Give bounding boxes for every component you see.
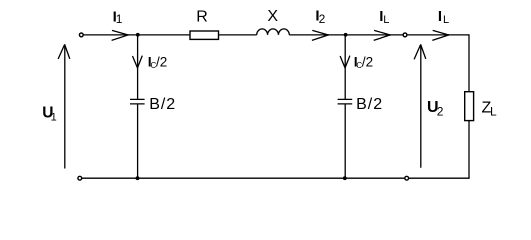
- svg-text:L: L: [443, 14, 449, 26]
- arrow U2: [414, 44, 426, 167]
- inductor X: [257, 29, 290, 35]
- svg-text:L: L: [383, 14, 389, 26]
- capacitor B/2 right: [338, 99, 353, 104]
- arrow Ic/2 right: [340, 56, 350, 69]
- svg-text:L: L: [490, 104, 497, 118]
- arrow U1: [58, 44, 70, 168]
- wire bottom right: [409, 177, 470, 179]
- arrow IL second: [432, 30, 449, 40]
- terminal input bottom: [78, 176, 82, 180]
- capacitor B/2 left: [130, 99, 145, 104]
- wire top-left: [84, 34, 190, 36]
- wire load right vertical lower: [468, 121, 470, 179]
- svg-text:X: X: [267, 8, 278, 25]
- terminal output top: [403, 33, 407, 37]
- svg-text:2: 2: [437, 104, 444, 118]
- wire bottom main: [82, 177, 405, 179]
- arrow I1: [112, 30, 129, 40]
- wire shunt1 upper: [137, 35, 139, 99]
- node junction top-right: [344, 33, 348, 37]
- svg-text:/2: /2: [156, 55, 167, 70]
- svg-text:B/2: B/2: [356, 96, 383, 113]
- node junction bottom-left: [136, 176, 140, 180]
- wire shunt2 upper: [344, 35, 346, 99]
- svg-text:B/2: B/2: [149, 96, 176, 113]
- load ZL: [465, 92, 474, 121]
- wire X to node2: [289, 34, 403, 36]
- wire shunt1 lower: [137, 104, 139, 178]
- arrow Ic/2 left: [133, 56, 143, 69]
- wire output to load: [407, 34, 469, 36]
- node junction top-left: [136, 33, 140, 37]
- wire load right vertical upper: [468, 34, 470, 91]
- terminal output bottom: [405, 176, 409, 180]
- svg-text:2: 2: [319, 12, 326, 26]
- arrow I2: [312, 30, 329, 40]
- terminal input top: [79, 33, 83, 37]
- svg-text:/2: /2: [362, 55, 373, 70]
- wire shunt2 lower: [344, 104, 346, 178]
- svg-text:1: 1: [51, 112, 57, 124]
- node junction bottom-right: [343, 176, 347, 180]
- arrow IL first: [374, 30, 391, 40]
- svg-text:1: 1: [116, 12, 123, 26]
- svg-text:R: R: [196, 9, 208, 26]
- svg-text:I: I: [438, 8, 442, 25]
- wire R to X: [219, 34, 257, 36]
- resistor R: [190, 31, 219, 39]
